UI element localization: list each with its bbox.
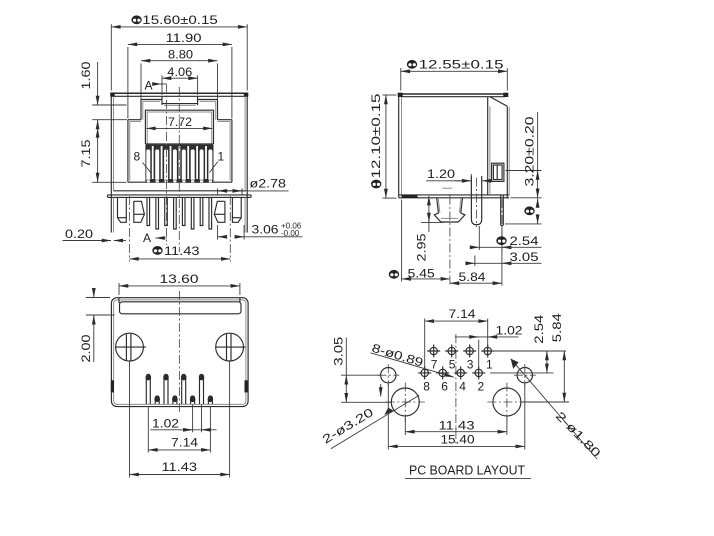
label 2-ø1.80: [511, 359, 604, 460]
svg-text:2.95: 2.95: [414, 233, 428, 261]
svg-text:15.60±0.15: 15.60±0.15: [142, 13, 218, 27]
svg-text:7.14: 7.14: [449, 307, 476, 321]
opening 11.90 section: [128, 120, 232, 183]
inner recessed face 7.72: [145, 110, 213, 144]
latch window: [492, 163, 504, 181]
svg-text:11.43: 11.43: [439, 418, 475, 432]
section label A top: [145, 79, 167, 93]
svg-text:7.72: 7.72: [168, 115, 192, 129]
hole ø1.80 left: [377, 364, 399, 386]
right mounting post circle: [216, 333, 246, 361]
svg-text:7.14: 7.14: [171, 436, 198, 450]
svg-text:0.20: 0.20: [65, 227, 93, 241]
svg-text:13.60: 13.60: [160, 272, 199, 286]
dimension ø2.78: [218, 176, 289, 195]
svg-text:3.20±0.20: 3.20±0.20: [523, 116, 537, 186]
svg-text:1.60: 1.60: [79, 61, 93, 89]
section line A-A: [166, 84, 168, 245]
dimension 2.00: [79, 290, 114, 363]
svg-text:ø2.78: ø2.78: [250, 176, 287, 190]
left side tab: [111, 195, 113, 233]
section label A bottom: [143, 231, 167, 245]
contact comb with 8 pins: [145, 144, 213, 183]
dimension ⊕5.45: [389, 200, 450, 282]
dimension ⊕12.55±0.15: [401, 58, 508, 91]
svg-text:2.54: 2.54: [510, 234, 539, 248]
svg-text:15.40: 15.40: [441, 433, 475, 447]
PCB VIEW: [320, 307, 604, 478]
right side tab: [245, 195, 247, 233]
top tab 4.06 hanging in opening: [162, 96, 198, 105]
svg-text:5.45: 5.45: [408, 266, 435, 280]
centerline (bottom view): [178, 291, 180, 412]
FRONT VIEW: [63, 13, 303, 261]
post centerline: [449, 196, 451, 286]
back PCB leg (side): [501, 195, 504, 252]
svg-text:2.00: 2.00: [79, 334, 93, 362]
dimension 7.72: [146, 115, 212, 129]
pin holes row 2 (8,6,4,2): [418, 366, 485, 379]
svg-text:2: 2: [478, 379, 485, 393]
contact bar with round tip: [471, 176, 481, 227]
dimension 2.54 (pcb): [490, 314, 566, 373]
dimension 1.02 (bottom): [150, 405, 216, 433]
left snap post (front): [118, 197, 145, 222]
dimension 3.20±0.20: [506, 112, 542, 198]
svg-text:4: 4: [459, 379, 466, 393]
hole ø1.80 right: [514, 364, 536, 386]
svg-text:A: A: [145, 79, 153, 93]
svg-text:1.20: 1.20: [427, 167, 455, 181]
hidden edge inside body: [442, 187, 452, 189]
pin number 8 label: [134, 150, 152, 173]
dimension 1.60 (left): [79, 61, 127, 128]
svg-text:11.90: 11.90: [166, 31, 202, 45]
svg-text:8: 8: [134, 150, 141, 164]
svg-text:A: A: [143, 231, 151, 245]
svg-text:3.05: 3.05: [510, 250, 539, 264]
body outline (bottom): [111, 298, 248, 407]
dimension 3.06 with tolerance: [218, 222, 303, 240]
dimension 5.84 (pcb): [522, 313, 570, 402]
extension tick near left hole: [380, 384, 382, 390]
dimension 8.80: [141, 48, 218, 100]
big hole ø3.20 left: [386, 383, 425, 422]
right snap post (front): [214, 197, 241, 222]
BOTTOM VIEW: [79, 272, 248, 478]
front face line (side): [488, 97, 490, 195]
svg-text:7: 7: [431, 357, 438, 371]
dimension 11.90: [128, 31, 232, 118]
svg-text:5.84: 5.84: [459, 270, 486, 284]
dimension ⊕12.10±0.15: [369, 93, 396, 198]
svg-text:5.84: 5.84: [550, 313, 564, 342]
pin number labels: [423, 357, 493, 393]
svg-text:2.54: 2.54: [532, 314, 546, 343]
SIDE VIEW: [369, 58, 541, 286]
dimension 1.02 (pcb): [455, 323, 523, 367]
label 2-ø3.20: [320, 395, 419, 449]
snap post (side): [434, 198, 465, 222]
dimension 5.84: [450, 226, 502, 286]
svg-text:11.43: 11.43: [164, 244, 200, 258]
svg-text:6: 6: [441, 379, 448, 393]
side tab marks (bottom): [111, 380, 114, 392]
dimension ⊕11.43 (front): [129, 196, 230, 262]
dimension 4.06: [162, 65, 198, 95]
front face band: [120, 302, 242, 314]
dimension 15.40 (pcb): [388, 384, 525, 450]
dimension 11.43 (bottom): [130, 362, 230, 478]
pin number 1 label: [210, 150, 225, 173]
pin holes row 1 (7,5,3,1): [427, 345, 494, 358]
vertical centerline: [178, 87, 180, 252]
dimension 7.14 (pcb): [425, 307, 488, 367]
dimension 3.05 (pcb): [332, 336, 392, 402]
svg-text:8.80: 8.80: [168, 48, 193, 62]
svg-text:1.02: 1.02: [152, 416, 179, 430]
connector body outline (front): [110, 93, 248, 196]
dimension 0.20: [63, 227, 127, 241]
centerline (pcb): [455, 334, 457, 446]
8 PCB legs (front): [147, 197, 212, 229]
svg-text:PC BOARD LAYOUT: PC BOARD LAYOUT: [409, 463, 525, 478]
dimension 1.20: [426, 167, 491, 197]
body outline (side): [398, 93, 510, 198]
svg-text:3.06: 3.06: [252, 223, 279, 237]
svg-text:12.10±0.15: 12.10±0.15: [369, 93, 383, 178]
small callout below 3.20: [505, 198, 542, 224]
title PC BOARD LAYOUT: [405, 463, 531, 479]
svg-text:1: 1: [218, 150, 225, 164]
left mounting post circle: [116, 333, 147, 361]
dimension 3.05 (side): [466, 250, 541, 266]
svg-text:12.55±0.15: 12.55±0.15: [419, 58, 504, 72]
dimension ⊕2.54 (side): [471, 226, 542, 250]
dimension 7.15 (left): [79, 120, 127, 182]
dimension 7.14 (bottom): [148, 406, 210, 453]
dimension 13.60: [119, 272, 240, 295]
svg-text:3.05: 3.05: [332, 336, 346, 365]
svg-text:-0.00: -0.00: [281, 229, 300, 238]
big hole ø3.20 right: [487, 383, 526, 422]
svg-text:1: 1: [486, 357, 493, 371]
svg-text:11.43: 11.43: [162, 460, 198, 474]
opening 8.80 section: [128, 100, 232, 122]
svg-text:1.02: 1.02: [496, 323, 523, 337]
8 leg holes staggered (bottom): [146, 374, 212, 404]
dimension 11.43 (pcb): [405, 418, 507, 436]
svg-text:8: 8: [423, 379, 430, 393]
dimension 15.60±0.15: [111, 13, 247, 90]
svg-text:7.15: 7.15: [79, 139, 93, 167]
dimension 2.95: [414, 196, 444, 261]
body lower lines and shelf: [107, 191, 251, 198]
svg-text:4.06: 4.06: [167, 65, 192, 79]
svg-text:3: 3: [467, 357, 474, 371]
svg-text:5: 5: [449, 357, 456, 371]
label 8-ø0.89: [370, 341, 454, 377]
